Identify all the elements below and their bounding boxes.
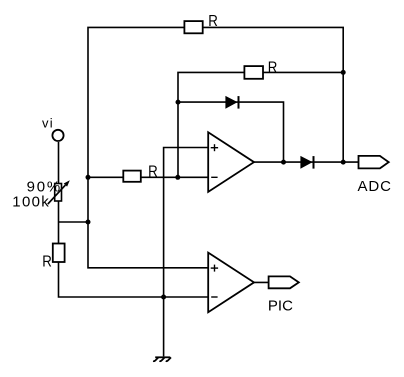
svg-text:R: R [208,13,218,30]
svg-text:vi: vi [42,115,54,130]
svg-text:R: R [148,164,158,181]
svg-text:PIC: PIC [268,297,293,314]
svg-text:R: R [42,253,52,270]
svg-text:ADC: ADC [358,178,392,195]
svg-text:R: R [268,59,278,76]
svg-text:100k: 100k [12,193,50,210]
